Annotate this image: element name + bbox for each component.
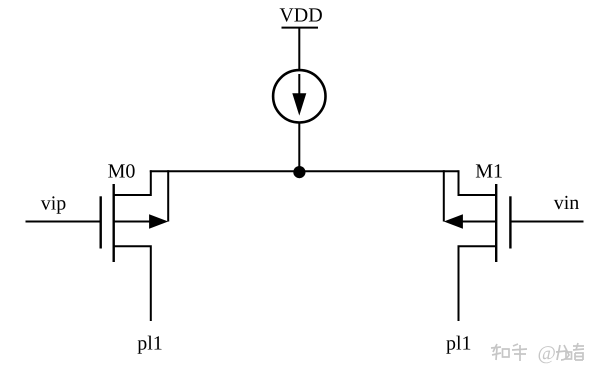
wire vip input [26, 221, 101, 223]
svg-text:M0: M0 [108, 160, 136, 182]
wire M1 body lead [463, 221, 497, 223]
current source I1 circle [273, 70, 325, 122]
transistor M1 gate bar [509, 196, 511, 248]
wire M0 source stub [114, 170, 151, 195]
wire vin input [510, 221, 583, 223]
transistor M1 body arrow (PMOS) [444, 214, 463, 228]
svg-text:pl1: pl1 [137, 333, 163, 355]
wire M1 body to tail rail [443, 170, 445, 221]
wire M0 drain stub [114, 246, 151, 321]
transistor M1 channel bar [495, 184, 497, 262]
svg-text:@: @ [538, 343, 556, 365]
wire M0 body lead [114, 221, 151, 223]
svg-text:vip: vip [41, 192, 67, 214]
transistor M0 channel bar [112, 184, 114, 262]
transistor M0 gate bar [99, 196, 101, 248]
wire current source to tail node [298, 122, 300, 172]
watermark 知乎 @如颜 [491, 343, 584, 361]
node tail junction dot [293, 166, 305, 178]
wire M1 source stub [459, 170, 497, 195]
current source I1 arrow [292, 74, 306, 116]
svg-text:vin: vin [554, 192, 580, 214]
VDD power rail bar [282, 27, 319, 29]
svg-text:M1: M1 [475, 160, 503, 182]
wire tail rail [150, 170, 459, 172]
wire M1 drain stub [459, 246, 497, 321]
wire M0 body to tail rail [167, 170, 169, 221]
svg-text:VDD: VDD [279, 5, 322, 27]
wire VDD bar to current source [298, 28, 300, 71]
svg-text:pl1: pl1 [446, 333, 472, 355]
transistor M0 body arrow (PMOS) [149, 214, 168, 228]
